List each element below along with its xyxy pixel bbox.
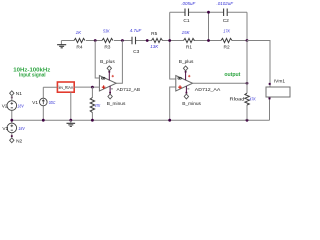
node junction lev pin rail [69, 119, 72, 122]
svg-text:output: output [224, 72, 240, 78]
svg-text:N2: N2 [16, 139, 22, 145]
resistor Rload [230, 93, 257, 105]
node N2 [10, 138, 23, 145]
resistor R2 [221, 29, 232, 51]
node junction output [246, 82, 249, 85]
node junction R3-C3 [121, 39, 124, 42]
svg-text:.0102uF: .0102uF [217, 1, 234, 6]
node junction C1-C2 [207, 11, 210, 14]
node B_plus (op-amp1) [100, 59, 115, 70]
op-amp U1 AD712_AB [99, 71, 140, 94]
svg-text:R5: R5 [151, 31, 157, 37]
svg-text:18V: 18V [17, 104, 24, 109]
wire feedback node right to meter [247, 41, 270, 88]
capacitor C1 [181, 1, 195, 24]
svg-text:V2: V2 [2, 104, 8, 110]
node N1 [10, 91, 23, 99]
svg-text:R1: R1 [186, 45, 192, 51]
node junction C3-R5 [146, 39, 149, 42]
node junction V2-V3 rail [10, 119, 13, 122]
wire lev_RIAA output to opamp1 non-inverting input [74, 86, 99, 88]
voltage source V1 [32, 87, 57, 120]
svg-text:AD712_AA: AD712_AA [195, 87, 221, 93]
svg-text:4.7uF: 4.7uF [130, 28, 142, 33]
wire R4-R3 junction down to opamp1 inverting input [95, 41, 99, 79]
green annotation input signal [13, 68, 50, 79]
node B_minus (op-amp2) [182, 94, 201, 107]
svg-text:18V: 18V [18, 126, 25, 131]
node junction R1-R2 [207, 39, 210, 42]
wire main row y=40.5 [61, 40, 270, 42]
svg-text:B_minus: B_minus [182, 101, 201, 107]
resistor R5 [150, 31, 162, 49]
svg-text:1K: 1K [76, 30, 83, 35]
resistor R4 [74, 30, 85, 50]
wire lev_RIAA bottom pin to ground rail [70, 92, 72, 120]
svg-text:R2: R2 [224, 45, 230, 51]
svg-text:R4: R4 [76, 45, 82, 51]
node junction R4-R3 [94, 39, 97, 42]
wire vertical C1-C2 junction down [208, 12, 210, 40]
svg-text:C1: C1 [183, 18, 189, 24]
svg-text:47K: 47K [249, 96, 256, 101]
wire output node down through Rload [246, 41, 248, 121]
svg-text:B_minus: B_minus [107, 101, 126, 107]
svg-text:0DC: 0DC [49, 100, 56, 105]
wire opamp1 output up to R3-C3 junction [116, 41, 122, 84]
capacitor C2 [217, 1, 234, 24]
svg-text:Rload: Rload [230, 96, 245, 102]
meter IVm1 [266, 79, 290, 121]
node B_minus (op-amp1) [107, 94, 126, 107]
wire vertical left of C1 down to opamp2 inverting input [170, 12, 176, 79]
capacitor C3 [130, 28, 142, 55]
voltage source V3 [2, 123, 25, 138]
node junction op2+ rail [168, 119, 171, 122]
svg-text:R3: R3 [104, 45, 110, 51]
ground rail wire [12, 119, 270, 121]
node junction lev_RIAA/47K/op1+ [91, 86, 94, 89]
svg-text:AD712_AB: AD712_AB [117, 87, 141, 93]
svg-text:N1: N1 [16, 91, 22, 97]
resistor R1 [182, 30, 195, 50]
node junction Rload rail [246, 119, 249, 122]
svg-text:C2: C2 [223, 18, 229, 24]
resistor 47K (input load) [90, 87, 101, 120]
svg-text:.005uF: .005uF [181, 1, 195, 6]
ground (top left) [57, 41, 66, 48]
svg-text:17K: 17K [223, 29, 231, 34]
macro lev_RIAA [57, 82, 74, 92]
wire opamp2 output to output node [193, 82, 247, 84]
svg-text:B_plus: B_plus [100, 59, 115, 65]
svg-text:C3: C3 [133, 49, 139, 55]
node junction R5 right [168, 39, 171, 42]
svg-text:B_plus: B_plus [179, 59, 194, 65]
node junction R2 right feedback [246, 39, 249, 42]
node B_plus (op-amp2) [179, 59, 194, 70]
svg-text:V1: V1 [32, 100, 38, 106]
svg-text:53K: 53K [103, 29, 110, 34]
resistor R3 [102, 29, 113, 51]
voltage source V2 [2, 96, 25, 124]
op-amp U2 AD712_AA [176, 71, 221, 94]
wire opamp2 non-inverting input to ground rail [170, 87, 176, 120]
wire vertical right of C2 down [246, 12, 248, 40]
node junction V1 rail [42, 119, 45, 122]
svg-text:13K: 13K [150, 44, 159, 49]
svg-text:15K: 15K [182, 30, 191, 35]
node junction 47K rail [91, 119, 94, 122]
ground (bottom middle) [67, 120, 76, 126]
wire top row y=12.2 [170, 11, 247, 13]
svg-text:IVm1: IVm1 [274, 79, 286, 85]
svg-text:47K: 47K [95, 103, 101, 108]
svg-text:V3: V3 [2, 126, 8, 132]
svg-text:lev_RIAA: lev_RIAA [59, 85, 74, 90]
svg-text:Input signal: Input signal [19, 73, 46, 79]
